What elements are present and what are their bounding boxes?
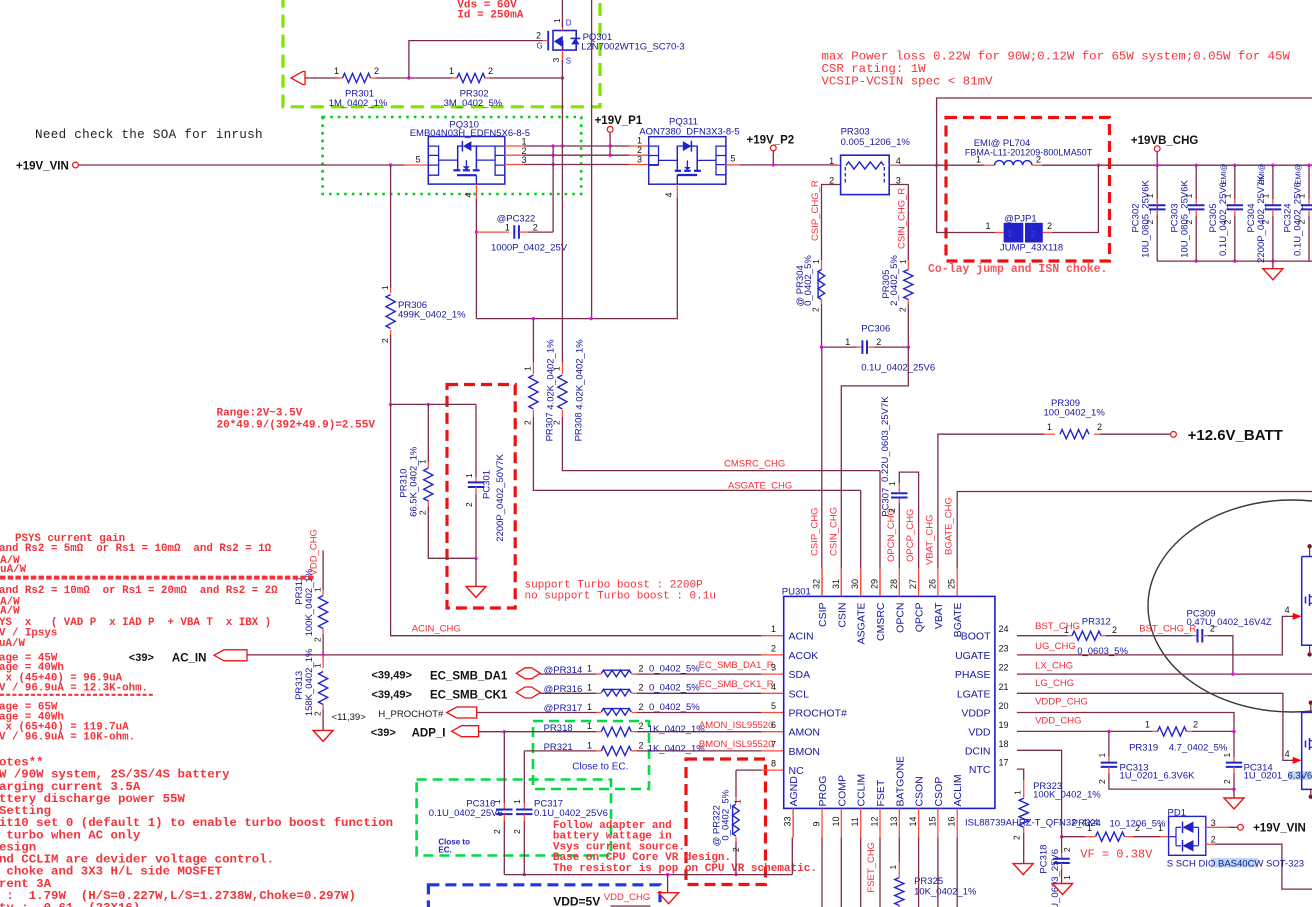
svg-text:+19VB_CHG: +19VB_CHG: [1131, 135, 1198, 147]
annotation box (lime dashed) around PQ301/PR301/PR302: [283, 0, 600, 107]
svg-text:1: 1: [334, 66, 339, 76]
svg-text:COMP: COMP: [836, 775, 848, 807]
svg-text:0.1U_0402_25V6: 0.1U_0402_25V6: [861, 363, 935, 374]
svg-text:CSIP_CHG_R: CSIP_CHG_R: [810, 180, 821, 241]
capacitor PC314 1U_0201_6.3V6K: [1233, 731, 1235, 757]
svg-text:26: 26: [927, 579, 937, 589]
capacitor PC306 0.1U_0402_25V6: [822, 346, 857, 348]
svg-text:2: 2: [637, 145, 642, 155]
svg-text:2: 2: [1145, 219, 1155, 224]
node +12.6V_BATT: [1171, 432, 1177, 438]
svg-text:7: 7: [771, 739, 776, 749]
svg-text:4: 4: [664, 192, 674, 197]
wire PR303 pin2 to CSIP_CHG_R: [822, 185, 841, 261]
svg-text:2: 2: [897, 307, 907, 312]
svg-text:AMON: AMON: [789, 727, 821, 739]
wire CSIN column to PU301 pin31: [841, 347, 908, 568]
svg-text:14: 14: [908, 816, 918, 826]
svg-text:3: 3: [637, 155, 642, 165]
wire PQ301 gate: [409, 41, 543, 78]
svg-text:CCLIM: CCLIM: [856, 774, 868, 807]
svg-text:1: 1: [312, 663, 322, 668]
svg-text:V / 96.9uA = 10K-ohm.: V / 96.9uA = 10K-ohm.: [0, 732, 135, 744]
separator line (bold red dashes): [0, 576, 315, 580]
svg-text:CSON: CSON: [914, 776, 926, 806]
svg-text:DCIN: DCIN: [965, 745, 991, 757]
svg-text:1: 1: [1047, 422, 1052, 432]
capacitor PC313 1U_0201_6.3V6K: [1108, 731, 1110, 757]
svg-text:ASGATE: ASGATE: [856, 603, 868, 645]
svg-text:L2N7002WT1G_SC70-3: L2N7002WT1G_SC70-3: [581, 42, 685, 53]
ground for +19VB cap bank: [1272, 261, 1274, 269]
svg-text:SCL: SCL: [789, 688, 810, 700]
transistor PQ301 L2N7002WT1G_SC70-3: [553, 31, 576, 51]
svg-text:1: 1: [733, 799, 743, 804]
svg-text:FSET: FSET: [875, 779, 887, 806]
svg-text:BOOT: BOOT: [961, 631, 991, 643]
wire ACIN node row: [391, 403, 476, 405]
svg-text:1: 1: [811, 259, 821, 264]
svg-text:2: 2: [1184, 219, 1194, 224]
svg-text:4.02K_0402_1%: 4.02K_0402_1%: [575, 339, 586, 410]
svg-text:PU301: PU301: [782, 586, 811, 597]
svg-text:158K_0402_1%: 158K_0402_1%: [304, 648, 315, 716]
svg-text:6: 6: [771, 720, 776, 730]
svg-text:G: G: [537, 42, 543, 51]
wire PQ301 source down to row1: [561, 54, 563, 60]
svg-text:VF = 0.38V: VF = 0.38V: [1080, 848, 1153, 862]
PU301 bottom pin stubs: [792, 808, 794, 837]
svg-text:PR308: PR308: [574, 412, 585, 441]
svg-text:4: 4: [771, 682, 776, 692]
svg-text:VBAT: VBAT: [933, 602, 945, 629]
svg-text:1: 1: [1062, 875, 1072, 880]
capacitor PC316 0.1U_0402_25V6: [503, 732, 505, 803]
svg-text:PC318: PC318: [1039, 845, 1050, 874]
svg-text:1: 1: [587, 740, 592, 750]
wire ACIN_CHG to PU301 pin1: [391, 404, 762, 635]
ground under PR313: [313, 730, 333, 741]
svg-text:10U_0805_25V6K: 10U_0805_25V6K: [1180, 180, 1191, 258]
svg-text:and Rs2 = 5mΩ or Rs1 = 10mΩ: and Rs2 = 5mΩ or Rs1 = 10mΩ and Rs2 = 1Ω: [0, 543, 272, 555]
svg-text:CSIP_CHG: CSIP_CHG: [810, 507, 821, 556]
svg-text:1: 1: [887, 481, 897, 486]
resistor PR319 4.7_0402_5%: [1158, 727, 1187, 736]
svg-text:LGATE: LGATE: [957, 688, 991, 700]
svg-text:2: 2: [418, 510, 428, 515]
wire component box below canvas: [611, 905, 651, 907]
svg-text:28: 28: [889, 579, 899, 589]
wire arrow to PR301: [305, 77, 338, 79]
svg-text:2: 2: [887, 508, 897, 513]
svg-text:1: 1: [505, 223, 510, 233]
wire jumper pin2 up to rail: [1043, 232, 1052, 234]
wire PQ311 pin4 down to sense row: [676, 184, 678, 198]
svg-text:27: 27: [908, 579, 918, 589]
svg-text:1: 1: [976, 155, 981, 165]
wire H_PROCHOT# to PU301 pin5: [477, 712, 596, 714]
capacitor PC305 0.1U_0402_25V6: [1234, 165, 1236, 199]
svg-text:NC: NC: [789, 765, 805, 777]
svg-text:1: 1: [449, 66, 454, 76]
svg-text:BATGONE: BATGONE: [894, 756, 906, 807]
svg-text:33: 33: [783, 816, 793, 826]
ground under PC301: [475, 558, 477, 586]
svg-text:0_0402_5%: 0_0402_5%: [721, 789, 732, 840]
ground under PC318: [1053, 884, 1073, 895]
svg-text:CSOP: CSOP: [933, 777, 945, 807]
svg-text:4: 4: [1285, 605, 1290, 615]
svg-text:1: 1: [552, 366, 562, 371]
svg-text:1: 1: [587, 721, 592, 731]
resistor PR304 0_0402_5%: [818, 270, 825, 300]
node +19V_P2: [725, 164, 740, 166]
svg-text:<11,39>: <11,39>: [332, 712, 367, 723]
svg-text:10: 10: [831, 816, 841, 826]
resistor PR324 10_1206_5%: [1062, 836, 1085, 838]
svg-text:4: 4: [464, 192, 474, 197]
svg-text:5: 5: [771, 701, 776, 711]
svg-text:PROG: PROG: [817, 776, 829, 807]
svg-text:2: 2: [1297, 219, 1307, 224]
resistor PR325 10K_0402_1%: [895, 878, 904, 906]
svg-text:Need check the SOA for inrush: Need check the SOA for inrush: [35, 128, 263, 142]
svg-text:1: 1: [552, 18, 562, 23]
svg-text:BGATE: BGATE: [952, 603, 964, 638]
wire PR303 pin3 to CSIN_CHG_R: [889, 185, 908, 261]
svg-text:2: 2: [492, 829, 502, 834]
svg-text:PR303: PR303: [841, 127, 870, 138]
svg-text:EMB04N03H_EDFN5X6-8-5: EMB04N03H_EDFN5X6-8-5: [410, 128, 530, 139]
svg-text:19: 19: [999, 720, 1009, 730]
svg-text:2: 2: [1222, 219, 1232, 224]
svg-text:VDDP: VDDP: [961, 708, 990, 720]
svg-text:66.5K_0402_1%: 66.5K_0402_1%: [409, 446, 420, 517]
svg-text:12: 12: [870, 816, 880, 826]
svg-text:2: 2: [811, 307, 821, 312]
svg-text:1: 1: [464, 473, 474, 478]
svg-text:2: 2: [1135, 823, 1140, 833]
svg-text:2: 2: [1211, 835, 1216, 845]
svg-text:29: 29: [870, 579, 880, 589]
svg-text:AGND: AGND: [788, 776, 800, 807]
wire PR303 pin4 to EMI section: [889, 164, 900, 166]
wire BOOT row / BST_CHG: [1017, 635, 1067, 637]
wire caps bottom bus: [1157, 260, 1312, 262]
svg-text:1: 1: [1184, 193, 1194, 198]
top-right net wire from +19V node going off-canvas: [937, 98, 1312, 165]
svg-text:21: 21: [999, 682, 1009, 692]
svg-text:PR312: PR312: [1082, 617, 1111, 628]
wire AC_IN to PU301 pin2 (ACOK): [247, 654, 762, 656]
svg-text:AC_IN: AC_IN: [172, 653, 207, 665]
wire PR301 to PR302: [376, 77, 452, 79]
svg-text:SDA: SDA: [789, 669, 811, 681]
svg-text:0.1U_0402_25V6: 0.1U_0402_25V6: [534, 808, 608, 819]
svg-text:31: 31: [831, 579, 841, 589]
wire PQ301 drain up: [561, 0, 563, 28]
svg-text:10U_0805_25V6K: 10U_0805_25V6K: [1141, 180, 1152, 258]
svg-text:0.005_1206_1%: 0.005_1206_1%: [841, 137, 911, 148]
svg-text:PD1: PD1: [1168, 807, 1186, 818]
svg-text:CSIN: CSIN: [836, 603, 848, 628]
svg-text:FSET_CHG: FSET_CHG: [866, 842, 877, 893]
svg-text:@PC322: @PC322: [497, 214, 536, 225]
svg-text:1: 1: [512, 799, 522, 804]
svg-text:5: 5: [730, 154, 735, 164]
svg-text:EC_SMB_DA1: EC_SMB_DA1: [430, 670, 508, 682]
svg-text:1: 1: [1097, 753, 1107, 758]
svg-text:JUMP_43X118: JUMP_43X118: [1000, 243, 1063, 254]
svg-text:2: 2: [1047, 221, 1052, 231]
svg-text:1: 1: [1008, 229, 1013, 239]
svg-text:10K_0402_1%: 10K_0402_1%: [914, 887, 977, 898]
svg-text:UG_CHG: UG_CHG: [1035, 641, 1076, 652]
svg-text:+19V_P2: +19V_P2: [747, 135, 795, 147]
svg-text:BMON: BMON: [789, 746, 821, 758]
svg-text:PHASE: PHASE: [955, 669, 991, 681]
svg-text:PR318: PR318: [544, 723, 573, 734]
svg-text:1: 1: [985, 221, 990, 231]
svg-text:30: 30: [850, 579, 860, 589]
svg-text:1: 1: [771, 624, 776, 634]
svg-text:4.02K_0402_1%: 4.02K_0402_1%: [546, 339, 557, 410]
svg-text:0_0402_5%: 0_0402_5%: [649, 663, 700, 674]
svg-text:BST_CHG: BST_CHG: [1035, 621, 1080, 632]
wire LGATE row to low-side gate: [1017, 693, 1293, 760]
svg-text:Close to EC.: Close to EC.: [572, 762, 628, 773]
svg-text:ADP_I: ADP_I: [412, 728, 446, 740]
svg-text:AON7380_DFN3X3-8-5: AON7380_DFN3X3-8-5: [639, 127, 739, 138]
svg-text:2: 2: [512, 829, 522, 834]
svg-text:ACLIM: ACLIM: [952, 774, 964, 806]
svg-text:1: 1: [1222, 193, 1232, 198]
wire ADP_I to PU301 pin6 (AMON): [479, 731, 596, 733]
capacitor PC301 2200P_0402_50V7K: [475, 404, 477, 477]
svg-text:2: 2: [374, 66, 379, 76]
wire CSOP column: [937, 837, 939, 907]
svg-text:ty : 0.61 (23X16): ty : 0.61 (23X16): [0, 901, 140, 907]
svg-text:15: 15: [927, 816, 937, 826]
svg-text:+19V_VIN: +19V_VIN: [1253, 823, 1306, 835]
resistor PR307 4.02K_0402_1%: [532, 319, 534, 362]
svg-text:ASGATE_CHG: ASGATE_CHG: [728, 481, 792, 492]
svg-text:1: 1: [523, 366, 533, 371]
wire VDD row: [1017, 730, 1152, 732]
svg-text:0_0402_5%: 0_0402_5%: [649, 683, 700, 694]
wire BGATE riser and off-canvas run: [957, 492, 1312, 569]
capacitor PC302 10U_0805_25V6K: [1149, 205, 1166, 209]
svg-text:2: 2: [1112, 625, 1117, 635]
annotation box (blue dashed) VDD=5V region: [428, 885, 660, 907]
wire EC_SMB_CK1 to PU301 pin4: [540, 692, 596, 694]
resistor PR311 100K_0402_1%: [322, 550, 324, 590]
svg-text:The resistor is pop on CPU VR: The resistor is pop on CPU VR schematic.: [553, 863, 817, 875]
svg-text:+12.6V_BATT: +12.6V_BATT: [1188, 427, 1283, 444]
svg-text:V / 96.9uA = 12.3K-ohm.: V / 96.9uA = 12.3K-ohm.: [0, 682, 148, 694]
svg-text:Co-lay jump and ISN choke.: Co-lay jump and ISN choke.: [928, 263, 1107, 276]
jumper PJP1 JUMP_43X118: [1004, 223, 1024, 243]
svg-text:1: 1: [829, 156, 834, 166]
svg-text:1: 1: [1145, 720, 1150, 730]
svg-text:2: 2: [639, 683, 644, 693]
svg-text:+19V_VIN: +19V_VIN: [16, 161, 69, 173]
svg-text:EMI@: EMI@: [1219, 164, 1228, 185]
svg-text:5uA/W: 5uA/W: [0, 564, 27, 576]
svg-text:1000P_0402_25V: 1000P_0402_25V: [491, 243, 568, 254]
svg-text:4: 4: [896, 156, 901, 166]
wire node to jumper: [937, 165, 995, 232]
wire UGATE row to high-side gate: [1017, 616, 1293, 655]
svg-text:CSIP: CSIP: [817, 603, 829, 628]
wire FSET column: [879, 837, 881, 907]
wire PR322/NC to PU301 pin8: [736, 769, 762, 771]
wire BATGONE column: [898, 837, 900, 862]
svg-text:24: 24: [999, 624, 1009, 634]
svg-text:EC_SMB_DA1_R: EC_SMB_DA1_R: [699, 660, 774, 671]
svg-text:ACIN_CHG: ACIN_CHG: [412, 624, 461, 635]
svg-text:2: 2: [1222, 779, 1232, 784]
annotation box (red dashed) around PR322: [686, 759, 766, 885]
svg-text:ACOK: ACOK: [789, 650, 819, 662]
svg-text:2: 2: [1097, 779, 1107, 784]
svg-text:2: 2: [552, 420, 562, 425]
svg-text:1: 1: [1158, 823, 1163, 833]
svg-text:2: 2: [1261, 219, 1271, 224]
svg-text:AMON_ISL95520: AMON_ISL95520: [699, 720, 773, 731]
svg-text:CSIN_CHG: CSIN_CHG: [829, 507, 840, 556]
resistor PR321 1K_0402_1%: [524, 750, 596, 752]
svg-text:22: 22: [999, 663, 1009, 673]
svg-text:11: 11: [850, 817, 860, 826]
svg-text:2: 2: [464, 502, 474, 507]
svg-text:1: 1: [380, 285, 390, 290]
svg-text:PR319 4.7_0402_5%: PR319 4.7_0402_5%: [1129, 743, 1228, 754]
svg-text:2: 2: [523, 420, 533, 425]
resistor PR306 499K_0402_1%: [390, 165, 392, 288]
svg-text:FBMA-L11-201209-800LMA50T: FBMA-L11-201209-800LMA50T: [965, 148, 1093, 158]
resistor PR318 1K_0402_1%: [601, 727, 631, 736]
svg-text:2200P_0402_25V7K: 2200P_0402_25V7K: [1256, 174, 1267, 262]
resistor PR316 0_0402_5%: [601, 689, 631, 696]
svg-text:OPCP_CHG: OPCP_CHG: [905, 509, 916, 562]
svg-text:0.1U_0402_25V6: 0.1U_0402_25V6: [429, 808, 503, 819]
svg-text:2: 2: [312, 711, 322, 716]
svg-text:1: 1: [587, 663, 592, 673]
wire PQ310 pin4 down: [475, 184, 477, 199]
resistor PR308 4.02K_0402_1%: [561, 146, 563, 362]
svg-text:PC301: PC301: [482, 470, 493, 499]
svg-text:4: 4: [1285, 749, 1290, 759]
svg-text:Id = 250mA: Id = 250mA: [457, 10, 523, 22]
svg-text:16: 16: [947, 816, 957, 826]
svg-text:1: 1: [587, 683, 592, 693]
wire PQ310 pins 1-3 to junction columns: [505, 145, 525, 147]
svg-text:2: 2: [1031, 229, 1036, 239]
svg-text:2: 2: [1193, 720, 1198, 730]
svg-text:PR321: PR321: [544, 742, 573, 753]
resistor PR323 100K_0402_1%: [1017, 769, 1024, 780]
svg-text:UGATE: UGATE: [955, 650, 990, 662]
svg-text:20*49.9/(392+49.9)=2.55V: 20*49.9/(392+49.9)=2.55V: [217, 420, 376, 432]
svg-text:<39>: <39>: [129, 652, 154, 664]
svg-text:1: 1: [898, 259, 908, 264]
svg-text:LG_CHG: LG_CHG: [1035, 678, 1074, 689]
svg-text:EC_SMB_CK1_R: EC_SMB_CK1_R: [699, 679, 774, 690]
svg-text:2: 2: [1097, 422, 1102, 432]
resistor PR322 0_0402_5%: [735, 770, 737, 797]
svg-text:uA/W: uA/W: [0, 638, 25, 650]
transistor PQ310 EMB04N03H_EDFN5X6-8-5: [428, 137, 505, 185]
wire PD1 pin3 to +19V_VIN terminal: [1206, 826, 1229, 828]
svg-text:VBAT_CHG: VBAT_CHG: [925, 514, 936, 565]
svg-text:2: 2: [380, 338, 390, 343]
svg-text:VDDP_CHG: VDDP_CHG: [1035, 697, 1088, 708]
svg-text:@PR314: @PR314: [544, 665, 583, 676]
svg-text:uA/W: uA/W: [0, 605, 20, 617]
svg-text:100_0402_1%: 100_0402_1%: [1044, 408, 1106, 419]
diode PD1 BAS40CW: [1169, 816, 1206, 855]
svg-text:2: 2: [312, 637, 322, 642]
annotation box (red dashed) EMI choke co-lay: [946, 118, 1110, 262]
svg-text:<39,49>: <39,49>: [372, 670, 412, 682]
wire long vertical net from top: [591, 0, 593, 319]
svg-text:<39,49>: <39,49>: [372, 689, 412, 701]
svg-text:and Rs2 = 10mΩ or Rs1 = 20mΩ: and Rs2 = 10mΩ or Rs1 = 20mΩ and Rs2 = 2…: [0, 585, 278, 597]
svg-text:VDD_CHG: VDD_CHG: [1035, 716, 1081, 727]
svg-text:1: 1: [492, 799, 502, 804]
svg-text:5: 5: [416, 155, 421, 165]
annotation box (red dashed) around PR310/PC301: [447, 385, 515, 609]
svg-text:S: S: [566, 57, 571, 66]
svg-text:1K_0402_1%: 1K_0402_1%: [648, 743, 706, 754]
svg-text:2: 2: [639, 740, 644, 750]
capacitor PC307 0.22U_0603_25V7K: [898, 503, 900, 568]
wire COMP column: [840, 837, 842, 907]
svg-text:2: 2: [639, 702, 644, 712]
svg-text:0.22U_0603_25V7K: 0.22U_0603_25V7K: [880, 396, 891, 482]
svg-text:3M_0402_5%: 3M_0402_5%: [444, 98, 503, 109]
svg-text:1U_0201_6.3V6K: 1U_0201_6.3V6K: [1120, 771, 1196, 782]
svg-text:LX_CHG: LX_CHG: [1035, 661, 1073, 672]
svg-text:BGATE_CHG: BGATE_CHG: [944, 497, 955, 555]
wire +19V_VIN rail to PQ310 pin5: [78, 164, 404, 166]
svg-text:2: 2: [1036, 155, 1041, 165]
svg-text:VDD=5V: VDD=5V: [553, 895, 600, 907]
svg-text:2: 2: [731, 847, 741, 852]
svg-text:VDD_CHG: VDD_CHG: [309, 529, 320, 575]
capacitor PC309 0.47U_0402_16V4Z: [1198, 629, 1203, 643]
svg-text:2: 2: [1210, 623, 1215, 633]
wire PROG column: [821, 837, 823, 907]
wire analog ground bus (bottom): [504, 874, 792, 876]
svg-text:0_0402_5%: 0_0402_5%: [649, 702, 700, 713]
wire VDDP row: [1017, 713, 1234, 732]
svg-text:ACIN: ACIN: [789, 631, 814, 643]
svg-text:13: 13: [889, 816, 899, 826]
svg-text:@PR317: @PR317: [544, 703, 583, 714]
svg-text:D: D: [566, 19, 572, 28]
capacitor PC304 2200P_0402_25V7K: [1272, 165, 1274, 199]
annotation box (green dashed) Close to EC around PC316/PC317: [417, 780, 611, 856]
svg-text:1: 1: [1145, 193, 1155, 198]
wire ACLIM column: [956, 837, 958, 907]
svg-text:499K_0402_1%: 499K_0402_1%: [398, 310, 466, 321]
wire +19VB rail with cap taps: [1157, 164, 1312, 166]
svg-text:@PJP1: @PJP1: [1004, 214, 1036, 225]
svg-text:20: 20: [999, 701, 1009, 711]
svg-text:9: 9: [812, 821, 822, 826]
